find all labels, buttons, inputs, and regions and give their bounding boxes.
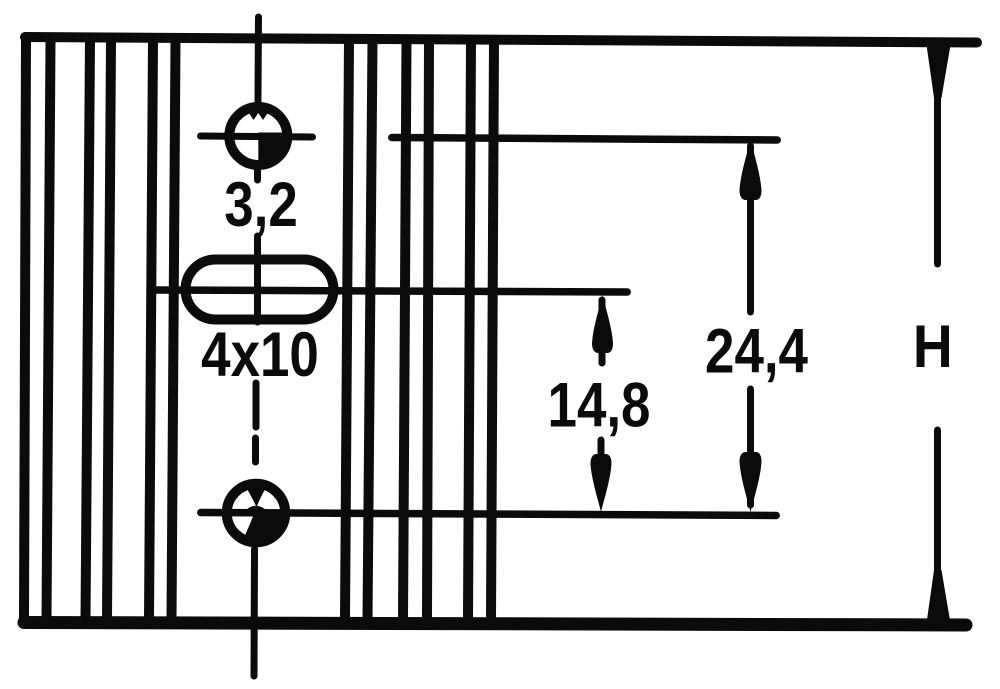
svg-text:14,8: 14,8 [548, 370, 651, 440]
svg-text:H: H [913, 314, 953, 381]
svg-text:3,2: 3,2 [224, 170, 298, 240]
svg-text:4x10: 4x10 [201, 320, 319, 390]
svg-text:24,4: 24,4 [705, 316, 809, 386]
